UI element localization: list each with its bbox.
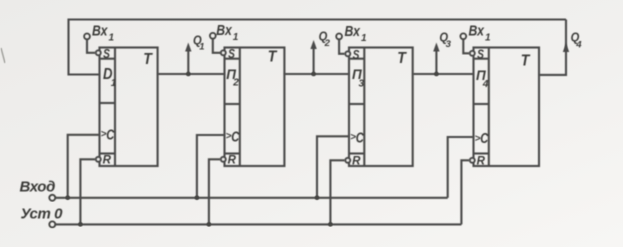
output Q1 arrow (185, 32, 204, 74)
svg-text:S: S (103, 47, 110, 61)
svg-text:1: 1 (109, 33, 115, 44)
pin R inversion circle DD1 (96, 157, 101, 162)
wire: reset branch to R of DD2 (209, 159, 221, 224)
junction: Q3 node (434, 72, 439, 77)
wire: top feedback Q4 to D1 (69, 20, 567, 75)
svg-text:1: 1 (111, 78, 117, 89)
input Вх1 of DD2 (210, 22, 239, 53)
wire: reset branch to R of DD1 (80, 159, 95, 224)
svg-text:S: S (477, 47, 484, 61)
svg-text:C: C (231, 130, 239, 146)
svg-text:S: S (228, 47, 235, 61)
svg-text:Вх: Вх (345, 23, 361, 40)
svg-text:1: 1 (361, 33, 367, 44)
scan artifact: small tick at left edge (1, 48, 5, 63)
svg-text:2: 2 (324, 38, 331, 49)
svg-text:3: 3 (446, 39, 452, 50)
input Вх1 of DD4 (460, 22, 491, 53)
junction: clock at DD2 (195, 196, 200, 201)
wire: Q1 net FF1 to FF2 (158, 73, 225, 75)
junction: reset at DD1 (78, 222, 83, 227)
svg-text:C: C (356, 131, 364, 147)
output Q2 arrow (310, 28, 330, 74)
input Вх1 of DD1 (84, 22, 114, 53)
pin R inversion circle DD2 (221, 157, 226, 162)
svg-text:1: 1 (233, 32, 239, 43)
svg-text:1: 1 (485, 32, 491, 43)
svg-text:Вх: Вх (92, 22, 108, 39)
svg-text:1: 1 (199, 41, 204, 52)
wire: reset bus (Уст 0 line) (55, 223, 461, 225)
svg-text:T: T (268, 49, 278, 66)
pin S inversion circle DD2 (221, 50, 226, 55)
terminal Вход (clock input) (20, 178, 56, 201)
svg-text:S: S (353, 48, 360, 62)
wire: clock branch to C of DD4 (448, 137, 474, 198)
terminal Уст 0 (reset input) (21, 206, 64, 228)
wire: clock branch to C of DD3 (317, 136, 349, 198)
junction: reset at DD2 (207, 222, 212, 227)
svg-text:Вх: Вх (469, 22, 485, 39)
svg-text:T: T (397, 50, 407, 67)
wire: clock bus (Вход line) (55, 197, 447, 199)
junction: Q1 node (186, 72, 191, 77)
junction: reset at DD3 (328, 222, 333, 227)
junction: Q2 node (311, 72, 316, 77)
svg-text:R: R (477, 156, 486, 168)
wire: Q2 net FF2 to FF3 (284, 73, 349, 75)
svg-text:T: T (521, 53, 531, 70)
wire: clock branch to C of DD1 (68, 135, 100, 198)
wire: Q3 net FF3 to FF4 (413, 73, 474, 75)
svg-text:C: C (480, 131, 488, 147)
output Q3 arrow (433, 30, 451, 75)
wire: reset branch to R of DD4 (461, 160, 469, 224)
svg-text:2: 2 (232, 78, 239, 89)
wire: reset branch to R of DD3 (330, 160, 345, 224)
svg-text:4: 4 (482, 79, 489, 90)
pin R inversion circle DD3 (345, 158, 350, 163)
pin S inversion circle DD1 (96, 50, 101, 55)
flip-flop DD1 (T trigger) (96, 47, 158, 167)
svg-text:R: R (228, 155, 237, 167)
svg-text:C: C (106, 128, 114, 144)
svg-text:R: R (103, 155, 112, 167)
svg-text:3: 3 (359, 79, 365, 90)
flip-flop DD4 (T trigger) (470, 47, 539, 167)
pin S inversion circle DD3 (345, 51, 350, 56)
output Q4 arrow (563, 29, 583, 52)
junction: clock at DD3 (315, 196, 320, 201)
flip-flop DD2 (T trigger) (221, 47, 284, 167)
svg-text:T: T (143, 51, 153, 68)
pin S inversion circle DD4 (470, 51, 475, 56)
svg-text:R: R (352, 156, 361, 168)
wire: Q4 output up to top feedback (539, 20, 566, 75)
flip-flop DD3 (T trigger) (345, 48, 412, 168)
svg-text:Вх: Вх (216, 22, 232, 39)
svg-text:Уст 0: Уст 0 (21, 206, 64, 223)
pin R inversion circle DD4 (470, 158, 475, 163)
junction: clock at DD1 (65, 196, 70, 201)
input Вх1 of DD3 (336, 23, 367, 54)
wire: clock branch to C of DD2 (197, 135, 225, 198)
svg-text:Вход: Вход (20, 178, 56, 195)
svg-text:4: 4 (575, 40, 582, 51)
